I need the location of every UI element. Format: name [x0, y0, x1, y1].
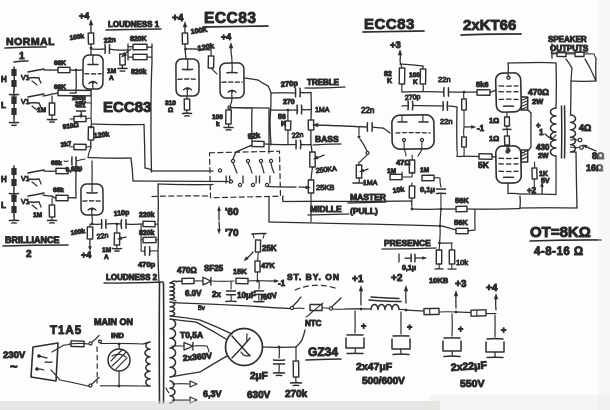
svg-text:BRILLIANCE: BRILLIANCE: [5, 235, 60, 245]
svg-text:1: 1: [539, 128, 544, 137]
capacitor 270p (PI): [402, 94, 443, 110]
svg-text:1MA: 1MA: [315, 107, 330, 114]
svg-text:NORMAL: NORMAL: [6, 36, 55, 48]
resistor 470R 2W (screen no.1): [521, 87, 549, 110]
KT66 tube no.2: [496, 146, 522, 183]
power +4 arrow: [486, 283, 498, 310]
wire 5V to GZ34 heater: [170, 316, 232, 334]
label BASS: [313, 134, 341, 145]
svg-text:4Ω: 4Ω: [579, 123, 591, 133]
switch (master pull): [358, 127, 369, 162]
svg-text:1M: 1M: [107, 68, 116, 75]
label 230V: [3, 350, 26, 374]
wire plug bottom: [51, 370, 88, 386]
resistor 1M (normal input): [37, 96, 55, 115]
svg-text:'70: '70: [225, 228, 239, 239]
resistor 1 ohm (cathode sense b): [489, 130, 510, 154]
svg-text:2x47μF: 2x47μF: [356, 361, 393, 373]
svg-text:MIDLLE: MIDLLE: [310, 204, 342, 214]
wire 68K to V1a grid: [70, 69, 83, 72]
plug V1 (brilliance H): [21, 170, 44, 186]
ground 1M (normal): [48, 115, 57, 122]
jack L (brilliance): [1, 193, 19, 223]
svg-text:'60: '60: [225, 207, 239, 218]
pot 1M A (loudness 1): [107, 49, 131, 82]
plug V1 (normal L): [21, 94, 44, 110]
svg-text:2W: 2W: [538, 153, 549, 160]
wire mix node down: [88, 140, 91, 157]
resistor 220k (loudness2): [139, 212, 155, 227]
B+ rail a: [345, 308, 369, 310]
resistor 820k (loudness1 lower): [131, 54, 147, 76]
speaker jack sockets: [553, 52, 596, 58]
triode V2a: [176, 59, 199, 96]
triode V1b (brilliance): [81, 184, 103, 215]
svg-text:2μF: 2μF: [250, 371, 268, 382]
svg-text:270k: 270k: [285, 389, 308, 400]
svg-text:56K: 56K: [454, 218, 468, 227]
svg-text:10k: 10k: [456, 258, 468, 267]
svg-text:+: +: [361, 321, 366, 331]
svg-text:1M: 1M: [37, 107, 46, 114]
filter cap 22uF no.4: [486, 315, 506, 358]
filter cap 47uF no.2: [392, 312, 412, 355]
svg-text:1K: 1K: [539, 171, 548, 178]
svg-text:+4: +4: [81, 250, 91, 260]
pot 250KA bass: [310, 130, 338, 175]
pot 1MA master: [353, 162, 378, 187]
svg-text:430: 430: [536, 143, 550, 152]
resistor (rail +2/+3): [424, 308, 456, 314]
wire plug to fuse: [52, 344, 71, 352]
resistor 10k (PI tail): [392, 183, 414, 209]
label PRESENCE: [382, 238, 436, 249]
power +3 (PI): [390, 40, 402, 61]
svg-text:25KB: 25KB: [316, 183, 334, 192]
power +4 (V2a): [172, 13, 187, 33]
diode SF25: [201, 264, 234, 285]
svg-text:A: A: [104, 254, 109, 261]
title GZ34: [306, 345, 341, 360]
power +4 (V1a): [79, 11, 93, 33]
resistor 47K (bias): [255, 252, 275, 281]
svg-text:~: ~: [10, 359, 18, 374]
label 2x22uF 550V: [450, 359, 488, 390]
svg-text:5k6: 5k6: [476, 80, 489, 89]
fuse T0.5A + diode: [172, 330, 209, 352]
jack H (brilliance): [1, 166, 19, 196]
resistor 430R 2W (screen no.2): [521, 143, 550, 162]
wire 5V to standby: [170, 302, 290, 309]
svg-text:SF25: SF25: [204, 264, 224, 273]
svg-text:k: k: [216, 121, 220, 128]
svg-text:2xKT66: 2xKT66: [463, 17, 516, 34]
svg-text:-1: -1: [477, 124, 485, 133]
resistor 470R (bias supply): [176, 266, 201, 284]
capacitor 270 (treble lo): [271, 99, 311, 114]
title LOUDNESS 1: [106, 20, 161, 30]
resistor 5K (KT66 no.2 grid): [457, 150, 496, 170]
resistor 270k (bleeder): [285, 347, 308, 400]
svg-text:1M: 1M: [102, 247, 111, 254]
resistor 1M (PI grid R): [402, 167, 440, 181]
wire HT bottom to GZ34: [170, 356, 227, 377]
note OT=8K ohm: [530, 224, 601, 258]
label 10uF/60V: [237, 291, 278, 302]
filter cap 22uF no.3: [443, 314, 463, 357]
resistor 82k (channel mix): [230, 108, 264, 160]
triode V2b: [220, 63, 244, 98]
title 2xKT66: [461, 17, 521, 35]
resistor 2k7: [60, 140, 91, 149]
svg-text:K: K: [387, 78, 392, 85]
resistor 100K (V2a anode): [182, 27, 208, 44]
svg-text:82k: 82k: [247, 131, 261, 141]
capacitor 22n (to KT66 no.2): [440, 102, 457, 150]
svg-text:NTC: NTC: [305, 319, 322, 328]
resistor 68K (normal H grid): [54, 60, 70, 73]
svg-text:22n: 22n: [103, 37, 116, 45]
svg-text:K: K: [413, 79, 418, 86]
svg-text:5K: 5K: [478, 160, 490, 170]
secondary top lead: [571, 58, 597, 115]
svg-text:10μF: 10μF: [237, 291, 256, 300]
svg-text:25K: 25K: [262, 244, 277, 253]
plug V1 (normal H): [21, 69, 44, 85]
capacitor 10uF (a): [226, 281, 236, 302]
resistor 120k (coupling): [186, 41, 218, 74]
pot 25K (bias): [242, 233, 277, 262]
pot 1M A (loudness2): [102, 223, 126, 261]
choke: [369, 297, 406, 310]
wires loudness1 parallel pair: [118, 44, 152, 61]
svg-text:6,3V: 6,3V: [203, 389, 222, 399]
wire OT primary bottom: [555, 156, 557, 195]
fuse T1A5: [50, 325, 86, 347]
svg-text:A: A: [109, 75, 114, 82]
capacitor 22n (bass): [265, 132, 311, 149]
winding 2x360V (HT): [170, 319, 213, 377]
svg-text:56: 56: [278, 114, 286, 121]
wire V1b plate up: [91, 161, 93, 184]
wire anode node V1a: [90, 44, 93, 55]
svg-text:220k: 220k: [139, 212, 155, 219]
resistor 100k (V2b cathode follower): [212, 98, 232, 128]
capacitor 110p (loudness2): [113, 209, 141, 228]
mains plug: [31, 343, 58, 381]
label 2x47uF 500/600V: [356, 361, 405, 387]
resistor 100k (to +4, brill): [70, 223, 93, 260]
capacitor 250u 25V (cathode bypass): [72, 96, 86, 119]
resistor 1M (brill input): [33, 198, 57, 223]
OT core: [562, 106, 565, 158]
svg-text:2W: 2W: [532, 97, 544, 106]
power +2 arrow: [391, 273, 408, 311]
capacitor 0.68u: [64, 157, 85, 174]
resistor 1 ohm (cathode sense a): [489, 112, 511, 130]
svg-text:2x: 2x: [212, 290, 221, 299]
svg-text:6.0V: 6.0V: [185, 289, 202, 298]
svg-text:0,1μ: 0,1μ: [420, 185, 435, 194]
note 60/70 arrows: [217, 206, 239, 239]
resistor 56K (a): [455, 196, 469, 212]
svg-text:ST. BY. ON: ST. BY. ON: [287, 272, 340, 282]
svg-text:47Ω: 47Ω: [396, 158, 410, 167]
wire V2a anode: [184, 44, 187, 59]
svg-text:+3: +3: [455, 279, 467, 290]
wire plug L to 68K: [43, 93, 58, 96]
winding 6.0V: [170, 281, 202, 301]
label ST. BY. ON: [287, 272, 340, 282]
svg-text:1M: 1M: [33, 212, 42, 219]
B+ rail c: [456, 311, 471, 314]
tone stack left rail: [270, 93, 271, 145]
wire treble wiper to master cap: [312, 123, 365, 128]
resistor 120k (mix): [88, 118, 110, 148]
title ECC83 (phase inverter): [363, 16, 424, 33]
svg-text:+4: +4: [172, 13, 184, 24]
junction dots (buses): [411, 208, 443, 228]
resistor 820K (loudness1 upper): [130, 36, 147, 50]
svg-text:MASTER: MASTER: [350, 192, 386, 202]
B+ rail b: [406, 310, 424, 311]
svg-text:15K: 15K: [233, 267, 247, 276]
OT centre tap +1: [536, 121, 556, 142]
resistor 15K (bias): [233, 267, 270, 284]
svg-text:+4: +4: [79, 11, 89, 21]
power +1 arrow: [352, 274, 364, 310]
svg-text:(PULL): (PULL): [350, 206, 378, 216]
capacitor 2uF 630V: [247, 347, 285, 401]
resistor 68k (brill H grid): [44, 160, 81, 174]
capacitor 22n (to KT66 no.1): [438, 75, 477, 96]
speaker jack bar: [551, 44, 553, 58]
svg-text:GZ34: GZ34: [308, 345, 338, 359]
secondary bottom lead loop: [520, 152, 577, 208]
bias chain resistor upper: [462, 92, 467, 110]
resistor 56K (b): [454, 218, 468, 234]
svg-text:270p: 270p: [280, 79, 298, 89]
resistor 100K (PI anode R): [400, 64, 426, 86]
capacitor 10uF (b): [254, 281, 264, 302]
svg-text:270: 270: [283, 99, 295, 106]
resistor 47 ohm (PI cathode): [396, 149, 422, 173]
label MAIN ON: [94, 317, 133, 327]
svg-text:470Ω: 470Ω: [528, 87, 549, 97]
svg-text:T0,5A: T0,5A: [180, 330, 203, 340]
svg-text:22n: 22n: [361, 106, 374, 115]
winding 5V (rectifier heater): [170, 302, 206, 316]
svg-text:100: 100: [212, 114, 223, 121]
wire V1b cathode: [91, 215, 93, 224]
wire HT top to GZ34: [170, 319, 226, 339]
label MASTER (PULL): [348, 192, 386, 216]
capacitor 0.1u (PI): [420, 178, 446, 209]
svg-text:1M: 1M: [420, 167, 429, 174]
svg-text:47K: 47K: [261, 261, 275, 270]
dashed mech link (mains): [96, 347, 98, 383]
title ECC83 (second stage): [203, 10, 268, 27]
svg-text:82: 82: [384, 71, 392, 78]
wire selector to 25KB: [268, 186, 296, 189]
ground V2a cathode: [183, 110, 192, 116]
svg-text:+1: +1: [352, 274, 364, 285]
svg-text:TREBLE: TREBLE: [307, 78, 340, 87]
main switch bottom: [88, 378, 143, 388]
svg-text:820K: 820K: [130, 36, 147, 43]
speaker jack prongs: [566, 59, 596, 81]
svg-text:630V: 630V: [247, 390, 271, 401]
main switch top: [86, 336, 143, 346]
title LOUDNESS 2: [104, 273, 163, 283]
svg-text:+: +: [407, 322, 412, 332]
pot 10KB presence: [429, 243, 449, 285]
capacitor 270p (treble hi): [271, 88, 311, 97]
plug V1 (brilliance L): [21, 193, 44, 209]
pot 1MA treble: [308, 93, 330, 131]
svg-text:470p: 470p: [138, 260, 156, 269]
wire V2b anode to tone stack rail: [244, 78, 271, 93]
svg-text:LOUDNESS 2: LOUDNESS 2: [106, 273, 158, 282]
wire screen feed (KT66): [528, 110, 531, 151]
svg-text:68K: 68K: [54, 60, 66, 67]
title NORMAL 1: [5, 36, 55, 62]
capacitor 22n (loudness2): [92, 220, 122, 241]
dashed mech link (standby): [295, 285, 338, 290]
capacitor 22n (loudness 1): [91, 37, 118, 53]
NTC thermistor: [305, 303, 323, 328]
svg-text:+4: +4: [221, 32, 231, 42]
svg-text:22n: 22n: [438, 75, 451, 84]
svg-text:Ω: Ω: [168, 107, 173, 114]
capacitor 470p (loudness2): [138, 240, 158, 269]
wire selector input vertical: [268, 108, 270, 153]
wire GZ34 to standby feed: [296, 330, 305, 347]
KT66 tube no.1: [495, 73, 521, 113]
wire presence node: [438, 209, 452, 244]
svg-text:H: H: [1, 75, 7, 84]
resistor 68K (normal L grid): [54, 84, 91, 96]
resistor 820k (loudness2): [139, 224, 158, 243]
OT primary winding: [551, 108, 557, 156]
resistor 5k6 (KT66 no.1 grid): [476, 80, 496, 95]
svg-text:2x22μF: 2x22μF: [450, 359, 488, 374]
svg-text:PRESENCE: PRESENCE: [384, 238, 431, 248]
svg-text:MAIN ON: MAIN ON: [94, 317, 133, 327]
dashed selector box: [152, 151, 280, 198]
resistor 910 ohm (cathode): [62, 89, 91, 131]
wire KT66 cathode return: [508, 183, 556, 195]
svg-text:L: L: [1, 201, 6, 210]
capacitor 0.1u (presence): [399, 254, 427, 272]
svg-text:5v: 5v: [198, 305, 206, 312]
standby switch 2: [322, 298, 345, 310]
svg-text:550V: 550V: [460, 378, 485, 390]
svg-text:22n: 22n: [440, 117, 453, 126]
svg-text:SPEAKER: SPEAKER: [548, 35, 587, 44]
svg-text:+: +: [501, 325, 506, 335]
svg-text:+4: +4: [486, 283, 498, 294]
svg-text:310: 310: [165, 100, 176, 107]
bus wire A (PI bias bus): [412, 209, 520, 232]
svg-text:1Ω: 1Ω: [489, 116, 499, 125]
wire GZ34 output: [263, 346, 297, 349]
secondary taps: [571, 123, 605, 173]
OT secondary winding: [571, 115, 576, 152]
svg-text:500/600V: 500/600V: [362, 376, 405, 387]
svg-text:56K: 56K: [455, 196, 469, 205]
wire loudness1 output down to channel switch: [151, 61, 152, 172]
resistor 82K (PI anode L): [384, 61, 405, 85]
svg-text:ECC83: ECC83: [204, 10, 256, 27]
resistor (rail +3/+4): [471, 310, 496, 316]
label 2x: [212, 290, 221, 299]
resistor 310 ohm (V2a cathode): [165, 96, 190, 114]
svg-text:+3: +3: [390, 40, 401, 51]
pot 25KB middle: [299, 167, 334, 193]
power +2 arrow (cathode): [527, 182, 544, 195]
svg-text:470Ω: 470Ω: [177, 266, 197, 275]
resistor 10k (presence): [448, 243, 468, 269]
wire V1 loudness1 to switch: [152, 169, 222, 172]
bias arrow -1: [464, 110, 485, 133]
wire brilliance network to switch (row 2): [88, 158, 233, 184]
standby switch 1: [290, 297, 304, 310]
svg-text:10KB: 10KB: [429, 276, 449, 285]
svg-text:T1A5: T1A5: [50, 325, 82, 337]
triode V1a (normal): [83, 55, 103, 89]
winding 6.3V (heaters): [166, 381, 222, 403]
svg-text:1Ω: 1Ω: [489, 134, 499, 143]
wire anode network to switch (row 1): [92, 124, 152, 170]
svg-text:820k: 820k: [131, 69, 147, 76]
label 270p / TREBLE: [280, 78, 345, 89]
svg-text:BASS: BASS: [315, 134, 339, 144]
wire cathode node to selector: [230, 107, 269, 110]
title BRILLIANCE 2: [3, 235, 68, 260]
svg-text:ECC83: ECC83: [103, 99, 151, 116]
rectifier tube GZ34: [226, 329, 263, 366]
svg-text:+: +: [458, 324, 463, 334]
jack L (normal): [1, 95, 19, 126]
title SPEAKER OUTPUTS: [548, 35, 589, 53]
filter cap 47uF no.1: [346, 311, 366, 354]
svg-text:68k: 68k: [51, 160, 62, 167]
pentode phase inverter tube: [392, 115, 435, 150]
svg-text:+2: +2: [391, 273, 403, 284]
svg-text:4-8-16 Ω: 4-8-16 Ω: [534, 246, 584, 258]
capacitor 22n (master feed): [316, 106, 390, 133]
mains transformer primary winding: [143, 342, 150, 386]
wire loudness2 to selector: [155, 184, 213, 283]
resistor 1K 5V (bias sense): [532, 162, 550, 186]
bias chain resistor lower: [462, 127, 467, 156]
svg-text:0,1μ: 0,1μ: [402, 265, 416, 272]
title ECC83 (input stage): [103, 99, 151, 116]
wire PI anode bus: [402, 84, 444, 92]
svg-text:H: H: [1, 175, 7, 184]
label MIDDLE: [308, 204, 349, 215]
mains transformer core: [159, 283, 164, 403]
svg-text:68k: 68k: [53, 187, 64, 194]
ground V2b cathode resistor: [224, 124, 233, 130]
resistor 100k (V1a anode): [69, 33, 94, 44]
switch contacts (selector): [226, 159, 274, 186]
resistor 68k (brill L grid): [43, 170, 77, 201]
svg-text:L: L: [1, 101, 6, 110]
resistor 56k (slope): [278, 110, 291, 144]
jack H (normal): [1, 67, 19, 97]
